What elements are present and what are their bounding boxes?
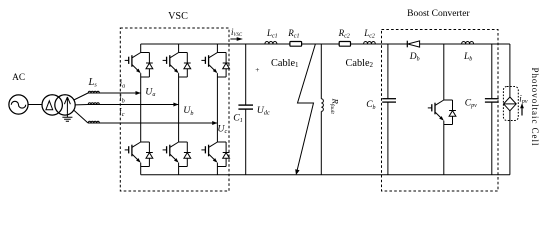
svg-text:Cable2: Cable2 [346,58,374,69]
svg-text:AC: AC [12,73,25,83]
svg-text:+: + [255,65,259,74]
svg-text:VSC: VSC [168,11,188,22]
svg-text:Cable1: Cable1 [271,58,299,69]
svg-text:Boost Converter: Boost Converter [407,9,470,19]
svg-text:Photovoltaic Cell: Photovoltaic Cell [530,68,540,147]
